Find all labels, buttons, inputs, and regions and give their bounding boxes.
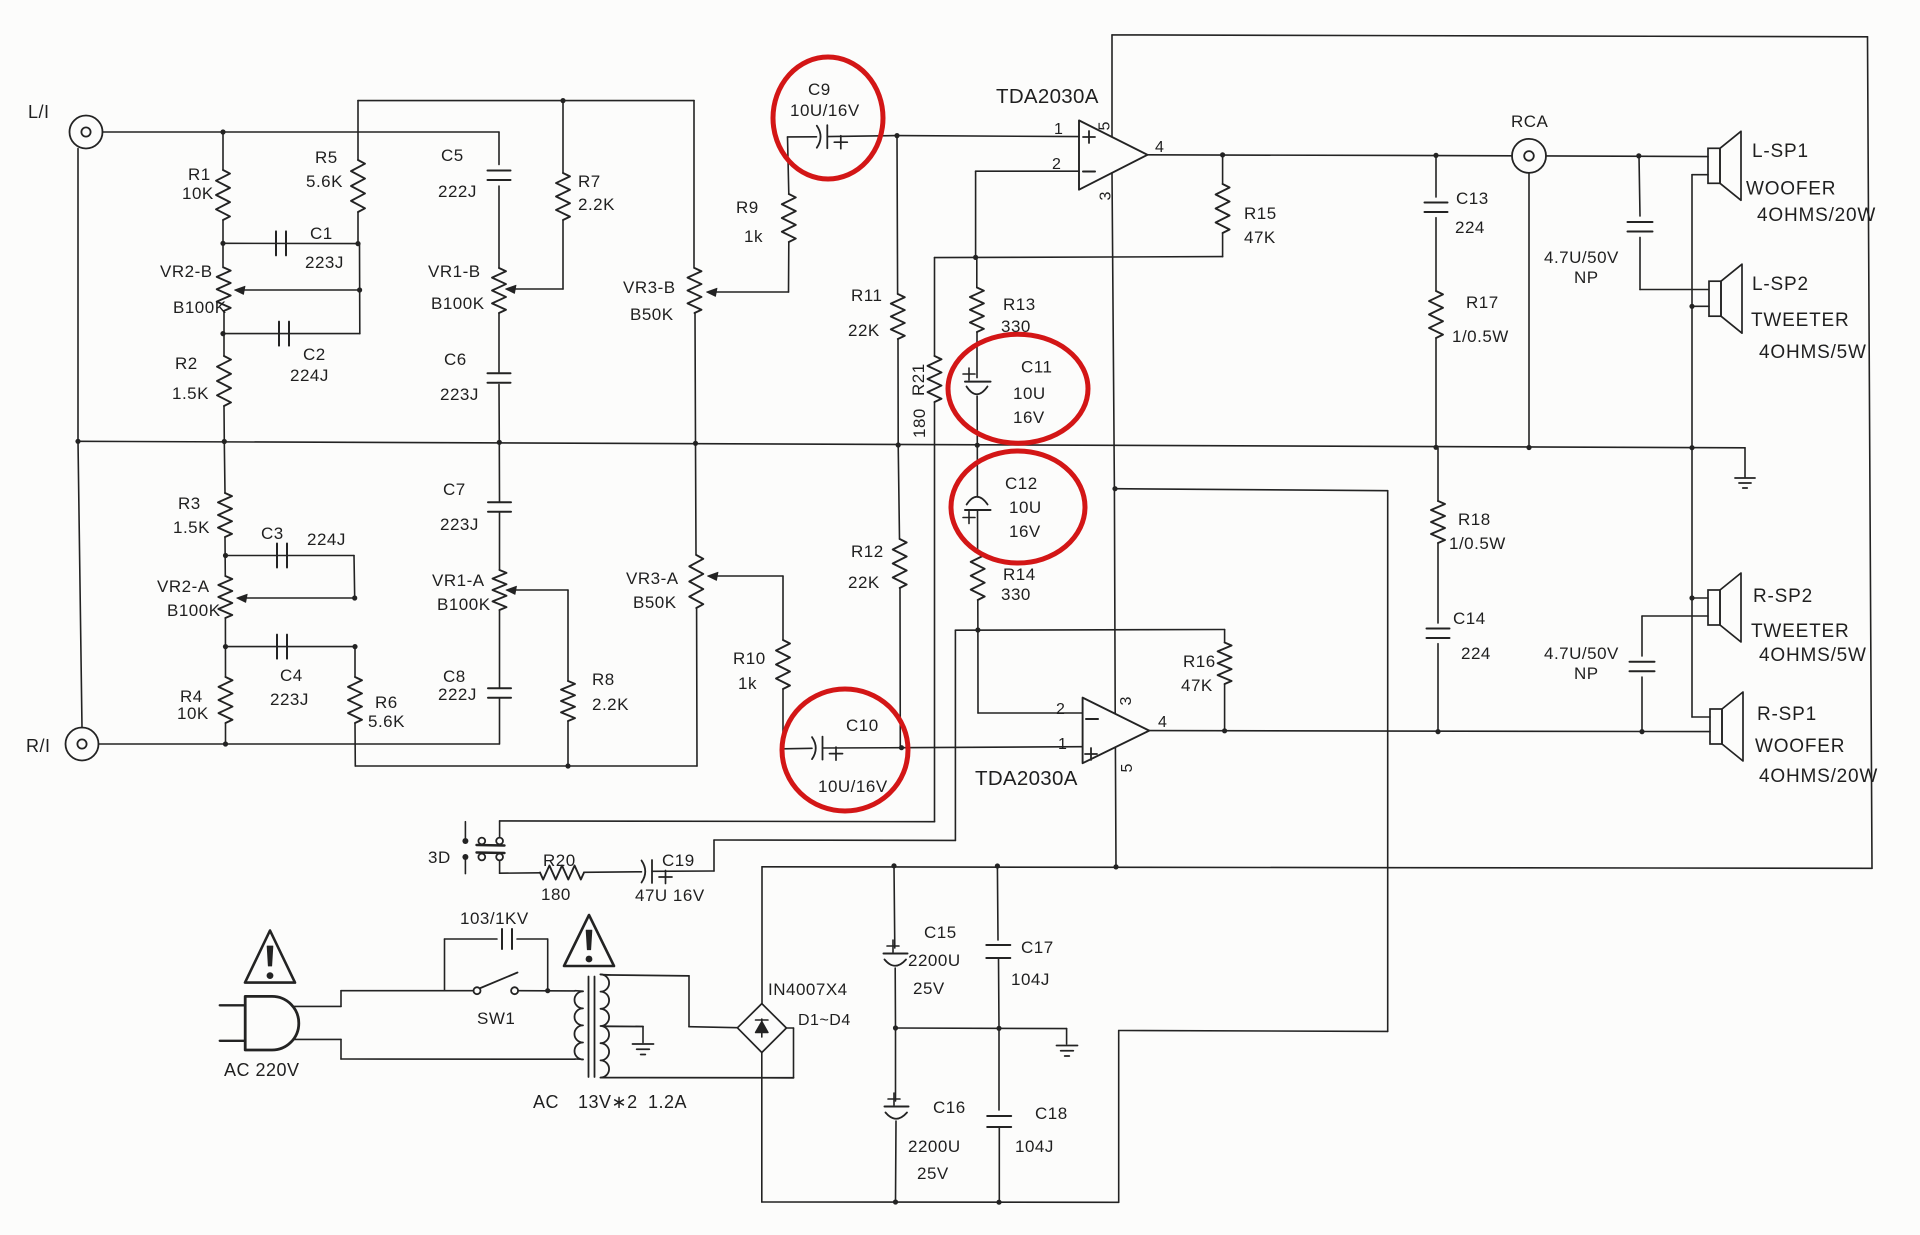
svg-text:TWEETER: TWEETER	[1751, 621, 1850, 642]
svg-text:1: 1	[1058, 736, 1067, 753]
svg-text:223J: 223J	[440, 385, 479, 404]
svg-text:R2: R2	[175, 354, 198, 373]
svg-text:1/0.5W: 1/0.5W	[1449, 534, 1506, 553]
svg-text:C5: C5	[441, 146, 464, 165]
svg-text:47K: 47K	[1244, 228, 1276, 247]
svg-text:C9: C9	[808, 80, 831, 99]
svg-text:B100K: B100K	[437, 595, 491, 614]
svg-text:22K: 22K	[848, 321, 880, 340]
svg-text:103/1KV: 103/1KV	[460, 909, 529, 928]
svg-text:R10: R10	[733, 649, 766, 668]
svg-text:223J: 223J	[305, 253, 344, 272]
svg-text:1: 1	[1054, 121, 1063, 138]
svg-text:4: 4	[1155, 139, 1164, 156]
svg-text:R9: R9	[736, 198, 759, 217]
svg-text:B50K: B50K	[633, 593, 677, 612]
svg-text:16V: 16V	[1013, 408, 1045, 427]
svg-text:13V∗2: 13V∗2	[578, 1092, 638, 1112]
svg-text:R16: R16	[1183, 652, 1216, 671]
svg-text:224J: 224J	[307, 530, 346, 549]
svg-text:C18: C18	[1035, 1104, 1068, 1123]
svg-text:R3: R3	[178, 494, 201, 513]
svg-text:C6: C6	[444, 350, 467, 369]
svg-text:C13: C13	[1456, 189, 1489, 208]
svg-text:10U: 10U	[1013, 384, 1046, 403]
svg-text:C1: C1	[310, 224, 333, 243]
svg-text:330: 330	[1001, 585, 1031, 604]
svg-text:4OHMS/5W: 4OHMS/5W	[1759, 342, 1867, 363]
svg-text:180: 180	[910, 408, 929, 438]
svg-text:R21: R21	[909, 363, 928, 396]
svg-text:RCA: RCA	[1511, 112, 1549, 131]
svg-text:104J: 104J	[1011, 970, 1050, 989]
svg-text:R7: R7	[578, 172, 601, 191]
svg-text:TDA2030A: TDA2030A	[975, 767, 1078, 790]
svg-text:2: 2	[1052, 156, 1061, 173]
svg-text:5: 5	[1119, 763, 1136, 772]
svg-text:1.2A: 1.2A	[648, 1092, 687, 1112]
svg-text:4OHMS/20W: 4OHMS/20W	[1757, 205, 1876, 226]
svg-text:C19: C19	[662, 851, 695, 870]
svg-text:B100K: B100K	[167, 601, 221, 620]
svg-text:330: 330	[1001, 317, 1031, 336]
svg-text:22K: 22K	[848, 573, 880, 592]
svg-text:2.2K: 2.2K	[592, 695, 629, 714]
svg-text:5: 5	[1097, 121, 1114, 130]
svg-text:47U 16V: 47U 16V	[635, 886, 705, 905]
svg-text:2.2K: 2.2K	[578, 195, 615, 214]
svg-text:180: 180	[541, 885, 571, 904]
svg-text:47K: 47K	[1181, 676, 1213, 695]
svg-text:10U/16V: 10U/16V	[790, 101, 860, 120]
svg-text:223J: 223J	[440, 515, 479, 534]
svg-text:C16: C16	[933, 1098, 966, 1117]
svg-text:R1: R1	[188, 165, 211, 184]
svg-text:C8: C8	[443, 667, 466, 686]
svg-text:R13: R13	[1003, 295, 1036, 314]
svg-text:R15: R15	[1244, 204, 1277, 223]
svg-text:VR3-A: VR3-A	[626, 569, 679, 588]
svg-text:C2: C2	[303, 345, 326, 364]
svg-text:2: 2	[1056, 701, 1065, 718]
svg-text:4.7U/50V: 4.7U/50V	[1544, 644, 1619, 663]
svg-text:AC: AC	[533, 1092, 559, 1112]
svg-text:3: 3	[1118, 696, 1135, 705]
svg-text:L/I: L/I	[28, 102, 50, 122]
svg-text:104J: 104J	[1015, 1137, 1054, 1156]
svg-text:B100K: B100K	[431, 294, 485, 313]
svg-text:C11: C11	[1021, 358, 1052, 377]
svg-text:TWEETER: TWEETER	[1751, 310, 1850, 331]
svg-text:TDA2030A: TDA2030A	[996, 85, 1099, 108]
svg-text:224J: 224J	[290, 366, 329, 385]
svg-text:R12: R12	[851, 542, 884, 561]
svg-text:VR2-B: VR2-B	[160, 262, 213, 281]
svg-text:R5: R5	[315, 148, 338, 167]
svg-text:R14: R14	[1003, 565, 1036, 584]
svg-text:222J: 222J	[438, 182, 477, 201]
svg-text:4OHMS/20W: 4OHMS/20W	[1759, 766, 1878, 787]
svg-text:3: 3	[1098, 191, 1115, 200]
svg-text:R-SP1: R-SP1	[1757, 704, 1817, 725]
svg-text:B50K: B50K	[630, 305, 674, 324]
svg-text:R20: R20	[543, 851, 576, 870]
svg-text:C7: C7	[443, 480, 466, 499]
svg-text:VR3-B: VR3-B	[623, 278, 676, 297]
svg-text:3D: 3D	[428, 848, 451, 867]
svg-text:WOOFER: WOOFER	[1755, 736, 1845, 757]
svg-text:R11: R11	[851, 286, 882, 305]
svg-text:223J: 223J	[270, 690, 309, 709]
svg-text:25V: 25V	[917, 1164, 949, 1183]
svg-text:1k: 1k	[738, 674, 757, 693]
svg-text:10K: 10K	[182, 184, 214, 203]
svg-text:VR1-A: VR1-A	[432, 571, 485, 590]
svg-text:NP: NP	[1574, 664, 1599, 683]
svg-text:R6: R6	[375, 693, 398, 712]
svg-text:5.6K: 5.6K	[368, 712, 405, 731]
svg-text:VR1-B: VR1-B	[428, 262, 481, 281]
svg-text:224: 224	[1455, 218, 1485, 237]
svg-text:C14: C14	[1453, 609, 1486, 628]
svg-text:SW1: SW1	[477, 1009, 515, 1028]
svg-text:10K: 10K	[177, 704, 209, 723]
svg-text:C10: C10	[846, 716, 879, 735]
svg-text:2200U: 2200U	[908, 1137, 961, 1156]
svg-text:10U: 10U	[1009, 498, 1042, 517]
svg-text:R18: R18	[1458, 510, 1491, 529]
svg-text:2200U: 2200U	[908, 951, 961, 970]
svg-text:IN4007X4: IN4007X4	[768, 980, 848, 999]
svg-text:L-SP2: L-SP2	[1752, 274, 1809, 295]
svg-text:NP: NP	[1574, 268, 1599, 287]
svg-text:C4: C4	[280, 666, 303, 685]
svg-text:AC 220V: AC 220V	[224, 1060, 300, 1080]
svg-text:R8: R8	[592, 670, 615, 689]
svg-text:1/0.5W: 1/0.5W	[1452, 327, 1509, 346]
svg-text:VR2-A: VR2-A	[157, 577, 210, 596]
svg-text:D1~D4: D1~D4	[798, 1012, 851, 1029]
svg-text:10U/16V: 10U/16V	[818, 777, 888, 796]
svg-text:4.7U/50V: 4.7U/50V	[1544, 248, 1619, 267]
svg-text:C15: C15	[924, 923, 957, 942]
svg-text:L-SP1: L-SP1	[1752, 141, 1809, 162]
svg-text:1.5K: 1.5K	[173, 518, 210, 537]
svg-text:1.5K: 1.5K	[172, 384, 209, 403]
svg-text:R17: R17	[1466, 293, 1499, 312]
svg-text:4OHMS/5W: 4OHMS/5W	[1759, 645, 1867, 666]
svg-text:222J: 222J	[438, 685, 477, 704]
svg-text:C3: C3	[261, 524, 284, 543]
svg-text:224: 224	[1461, 644, 1491, 663]
svg-text:5.6K: 5.6K	[306, 172, 343, 191]
svg-text:16V: 16V	[1009, 522, 1041, 541]
svg-text:R-SP2: R-SP2	[1753, 586, 1813, 607]
svg-text:4: 4	[1158, 714, 1167, 731]
svg-text:25V: 25V	[913, 979, 945, 998]
svg-text:WOOFER: WOOFER	[1746, 179, 1836, 200]
svg-text:R/I: R/I	[26, 736, 51, 756]
svg-text:1k: 1k	[744, 227, 763, 246]
svg-text:C17: C17	[1021, 938, 1054, 957]
svg-text:C12: C12	[1005, 474, 1038, 493]
svg-text:B100K: B100K	[173, 298, 227, 317]
